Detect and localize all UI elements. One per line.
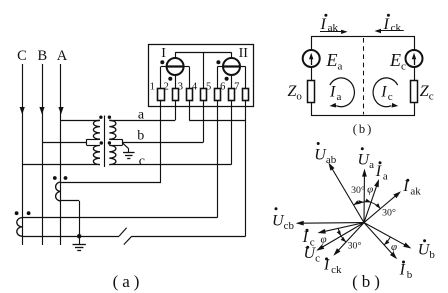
svg-text:c: c xyxy=(139,154,145,169)
svg-text:3: 3 xyxy=(178,82,183,93)
svg-text:30°: 30° xyxy=(351,185,365,196)
svg-text:2: 2 xyxy=(164,82,169,93)
svg-text:A: A xyxy=(57,48,68,64)
svg-text:(b): (b) xyxy=(352,272,384,291)
svg-text:B: B xyxy=(37,48,47,64)
svg-text:5: 5 xyxy=(206,82,211,93)
svg-text:1: 1 xyxy=(150,82,155,93)
svg-text:(b): (b) xyxy=(353,122,374,136)
svg-text:6: 6 xyxy=(220,82,225,93)
svg-text:φ: φ xyxy=(367,183,373,195)
svg-text:7: 7 xyxy=(234,82,239,93)
svg-text:(a): (a) xyxy=(113,272,144,291)
svg-text:30°: 30° xyxy=(382,207,396,218)
svg-text:b: b xyxy=(137,129,144,144)
svg-text:a: a xyxy=(138,108,145,123)
svg-text:30°: 30° xyxy=(348,241,362,252)
svg-text:II: II xyxy=(239,46,249,61)
svg-text:φ: φ xyxy=(320,234,326,246)
svg-text:φ: φ xyxy=(391,241,397,253)
svg-text:I: I xyxy=(161,46,166,61)
svg-text:C: C xyxy=(17,48,27,64)
svg-text:4: 4 xyxy=(192,82,198,93)
